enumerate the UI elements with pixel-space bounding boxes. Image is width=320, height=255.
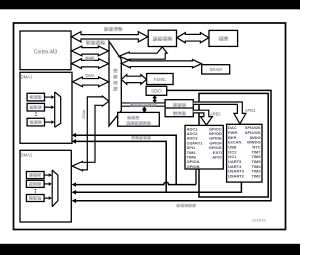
top black bar bbox=[0, 0, 300, 9]
DCode data bus arrow bbox=[72, 46, 109, 56]
bridge1 to APB2 bus band and down arrow bbox=[193, 110, 212, 125]
label instruction-bus bbox=[104, 27, 123, 31]
small vertical double arrow AHB-RCC bbox=[143, 107, 147, 113]
wire APB2 DMA request drop bbox=[195, 169, 197, 185]
figure frame bbox=[14, 23, 286, 230]
label bridge1 bbox=[173, 111, 186, 115]
AHB system bus band bbox=[121, 102, 165, 104]
bent bus arrow matrix to DMA2 (vertical) bbox=[72, 96, 109, 171]
ellipsis dots DMA1 bbox=[35, 112, 36, 116]
SRAM box bbox=[202, 65, 230, 74]
ICode instruction bus arrow bbox=[72, 32, 148, 42]
flash interface box bbox=[148, 30, 176, 46]
bus matrix parallelogram bbox=[109, 41, 121, 126]
svg-text:ai14800c: ai14800c bbox=[252, 219, 267, 223]
bridge2/bridge1 boxes bbox=[165, 100, 193, 117]
DMA2 channel 1 box bbox=[26, 172, 44, 179]
label DMA-request (upper) bbox=[132, 136, 151, 140]
arrowhead into DMA2 (net B) bbox=[72, 190, 77, 195]
svg-text:SDIO: SDIO bbox=[151, 89, 162, 94]
DMA1 block bbox=[20, 72, 72, 143]
wire riser to DMA1 line2 bbox=[73, 141, 166, 192]
DMA2 block bbox=[20, 150, 71, 222]
label DMA-request (lower) bbox=[177, 204, 196, 208]
label bridge2 bbox=[173, 103, 186, 107]
svg-text:FSMC: FSMC bbox=[154, 77, 166, 82]
label bus-matrix vertical bbox=[113, 69, 117, 73]
svg-text:DMA2: DMA2 bbox=[21, 153, 33, 158]
bottom black bar bbox=[0, 244, 300, 255]
arrow matrix to SRAM bbox=[121, 60, 201, 68]
arrow ch1 bbox=[45, 96, 52, 98]
arrow matrix to FSMC bbox=[121, 75, 146, 85]
ellipsis dots DMA2 bbox=[35, 189, 36, 193]
svg-text:Cortex-M3: Cortex-M3 bbox=[34, 50, 58, 56]
wire APB1 DMA request drop bbox=[73, 182, 241, 192]
arrow ch2 bbox=[44, 183, 49, 185]
SDIO box bbox=[146, 86, 167, 95]
arrowhead into DMA1 (net A) bbox=[72, 133, 77, 138]
DMA1 channel merge funnel bbox=[54, 92, 56, 127]
svg-text:DMA: DMA bbox=[81, 109, 86, 118]
CPU block Cortex-M3 bbox=[20, 31, 71, 70]
APB peripherals container box bbox=[199, 93, 268, 197]
wire SDIO DMA request: right, down, left into DMA2 bbox=[73, 90, 271, 200]
system bus arrow bbox=[72, 59, 109, 69]
DMA2 channel merge funnel bbox=[51, 170, 53, 207]
wire APB2 request horizontal to DMA2 with hop over x=166.2 bbox=[73, 182, 196, 184]
svg-text:APB2: APB2 bbox=[210, 112, 221, 117]
DMA1 channel 2 box bbox=[27, 103, 44, 111]
DMA2 channel 5 box bbox=[26, 195, 44, 202]
reset and clock control RCC box bbox=[118, 112, 160, 126]
svg-text:DMA1: DMA1 bbox=[21, 75, 33, 80]
DMA2 channel 2 box bbox=[26, 180, 44, 187]
DMA1 channel 7 box bbox=[27, 118, 44, 126]
bridge2 to APB1 bus band and down arrow bbox=[193, 102, 246, 124]
svg-text:DMA: DMA bbox=[85, 73, 95, 78]
APB2 peripherals box bbox=[185, 125, 223, 169]
svg-text:TIM2: TIM2 bbox=[251, 174, 261, 179]
arrowhead into DMA2 (net C) bbox=[72, 199, 77, 204]
arrow ch7 bbox=[45, 121, 52, 123]
label system bbox=[85, 57, 94, 62]
arrowhead into DMA1 (net B) bbox=[72, 139, 77, 144]
svg-text:AFIO: AFIO bbox=[212, 155, 222, 160]
label data-bus bbox=[86, 41, 105, 45]
small vertical double arrow SDIO-AHB bbox=[153, 96, 157, 103]
arrow ch2 bbox=[45, 106, 52, 108]
bent bus arrow matrix to flash interface bbox=[119, 47, 167, 60]
APB1 peripherals box bbox=[227, 124, 262, 182]
wire riser to DMA1 line1 bbox=[73, 135, 176, 184]
svg-text:APB1: APB1 bbox=[245, 108, 256, 113]
svg-text:GPIOB: GPIOB bbox=[187, 164, 200, 169]
DMA bus arrow bbox=[73, 77, 109, 87]
flash memory box bbox=[209, 30, 238, 46]
label AHB system bus bbox=[130, 103, 156, 107]
FSMC box bbox=[147, 74, 174, 85]
DMA1 channel 1 box bbox=[27, 93, 44, 101]
arrow flash-interface to flash bbox=[177, 33, 209, 43]
svg-text:SRAM: SRAM bbox=[210, 67, 223, 72]
arrow ch5 bbox=[44, 197, 49, 199]
arrowhead into DMA2 (net A) bbox=[72, 182, 77, 187]
svg-text:USART2: USART2 bbox=[228, 174, 245, 179]
arrow ch1 bbox=[44, 174, 49, 176]
